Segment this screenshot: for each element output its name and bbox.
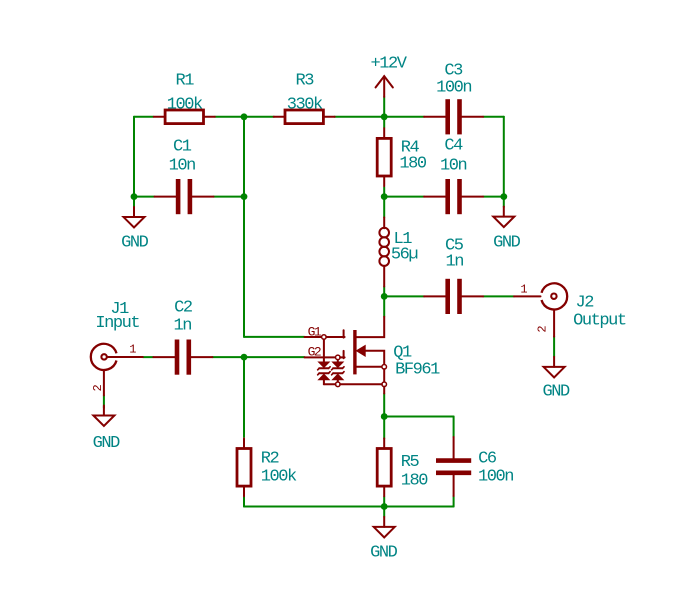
ground GND2	[493, 207, 521, 253]
svg-text:C4: C4	[444, 137, 463, 156]
wire	[244, 506, 384, 508]
wire	[553, 337, 555, 357]
svg-text:R1: R1	[176, 72, 195, 91]
svg-text:330k: 330k	[287, 95, 323, 114]
Q1 gate G1 pin	[305, 335, 345, 340]
Q1 source rail	[324, 383, 382, 385]
wire	[453, 496, 455, 507]
wire	[243, 117, 245, 197]
connector J2	[514, 283, 626, 337]
wire	[384, 506, 453, 508]
wire	[383, 507, 385, 517]
wire	[503, 117, 505, 197]
svg-text:R5: R5	[401, 453, 420, 472]
svg-text:100k: 100k	[167, 95, 203, 114]
wire to +12V	[383, 97, 385, 117]
Q1 protection diodes (G2)	[332, 360, 344, 387]
node R1-R3	[241, 113, 248, 120]
wire	[335, 116, 385, 118]
svg-text:J2: J2	[576, 293, 594, 312]
wire	[384, 116, 424, 118]
svg-text:56µ: 56µ	[391, 245, 418, 264]
wire	[214, 196, 245, 198]
Q1 bulk arrow	[357, 346, 384, 364]
node C4-GND	[500, 193, 507, 200]
wire	[384, 416, 453, 418]
wire	[503, 197, 505, 207]
svg-text:2: 2	[535, 325, 549, 332]
wire	[483, 116, 504, 118]
Q1 gate G2 pin	[305, 355, 345, 360]
svg-text:GND: GND	[493, 234, 521, 253]
wire to G2	[244, 356, 305, 358]
wire	[215, 116, 244, 118]
wire	[453, 417, 455, 438]
ground GND3 (J1)	[93, 406, 121, 453]
node R4-C4	[381, 193, 388, 200]
node +12V	[381, 113, 388, 120]
wire to G1	[244, 336, 305, 338]
resistor R5	[377, 438, 428, 496]
capacitor C3	[424, 62, 483, 135]
capacitor C2	[153, 299, 212, 375]
svg-text:Input: Input	[95, 314, 139, 333]
svg-text:C6: C6	[478, 450, 497, 469]
node C1-left	[131, 193, 138, 200]
wire	[243, 497, 245, 507]
wire	[244, 116, 274, 118]
capacitor C5	[424, 236, 483, 314]
wire	[483, 295, 514, 297]
node source-R5-C6	[381, 413, 388, 420]
svg-text:C2: C2	[174, 299, 192, 318]
Q1 source pin	[357, 365, 387, 394]
svg-text:180: 180	[399, 154, 427, 173]
wire	[103, 395, 105, 408]
node bottom-GND	[381, 503, 388, 510]
svg-text:1: 1	[520, 283, 527, 297]
svg-text:Q1: Q1	[393, 343, 412, 362]
wire	[243, 197, 245, 337]
resistor R2	[237, 438, 297, 496]
svg-text:GND: GND	[370, 543, 398, 562]
svg-text:R3: R3	[295, 72, 314, 91]
ground GND4 (J2)	[542, 357, 570, 402]
svg-text:100n: 100n	[478, 468, 513, 487]
svg-text:1n: 1n	[173, 316, 191, 335]
wire	[384, 295, 424, 297]
svg-text:GND: GND	[542, 383, 570, 402]
svg-text:GND: GND	[121, 233, 149, 252]
svg-text:10n: 10n	[440, 156, 467, 175]
Q1 drain pin	[357, 317, 385, 337]
node C1-right	[241, 193, 248, 200]
resistor R4	[377, 128, 427, 186]
svg-text:G2: G2	[308, 345, 321, 360]
wire	[134, 196, 155, 198]
svg-text:Output: Output	[573, 311, 626, 330]
svg-text:100k: 100k	[261, 468, 297, 487]
wire	[383, 417, 385, 439]
wire	[133, 117, 135, 197]
Q1 gate G2 electrode	[343, 351, 345, 358]
svg-text:C1: C1	[173, 137, 192, 156]
power +12V	[370, 54, 407, 97]
capacitor C1	[155, 137, 214, 214]
wire	[143, 356, 153, 358]
inductor L1	[379, 217, 417, 286]
svg-text:10n: 10n	[169, 157, 196, 176]
Q1 gate G1 electrode	[343, 330, 345, 337]
svg-text:1n: 1n	[446, 252, 464, 271]
wire	[212, 356, 244, 358]
resistor R1	[154, 72, 215, 124]
ground GND1	[121, 207, 149, 252]
svg-text:100n: 100n	[436, 79, 471, 98]
connector J1	[91, 300, 143, 396]
svg-text:BF961: BF961	[395, 361, 440, 380]
svg-text:1: 1	[129, 343, 136, 357]
wire	[383, 197, 385, 218]
svg-text:G1: G1	[308, 324, 322, 339]
wire	[383, 117, 385, 128]
wire	[383, 287, 385, 297]
capacitor C6	[436, 437, 513, 496]
wire	[134, 116, 154, 118]
wire	[483, 196, 504, 198]
wire	[383, 394, 385, 417]
transistor Q1	[305, 317, 441, 394]
Q1 protection diodes (G1)	[318, 339, 330, 384]
svg-text:+12V: +12V	[370, 54, 407, 73]
wire	[243, 357, 245, 437]
wire	[133, 197, 135, 208]
wire	[384, 196, 424, 198]
wire	[383, 296, 385, 316]
wire	[383, 187, 385, 197]
node C2-G2-R2	[241, 354, 248, 361]
resistor R3	[274, 72, 335, 124]
svg-text:R2: R2	[261, 449, 279, 468]
node L1-C5	[381, 293, 388, 300]
Q1 channel bar	[353, 330, 356, 374]
ground GND5 (bottom)	[370, 517, 398, 562]
svg-text:2: 2	[91, 384, 105, 391]
capacitor C4	[424, 137, 483, 215]
svg-text:GND: GND	[93, 434, 121, 453]
wire	[383, 497, 385, 507]
svg-text:180: 180	[401, 472, 429, 491]
